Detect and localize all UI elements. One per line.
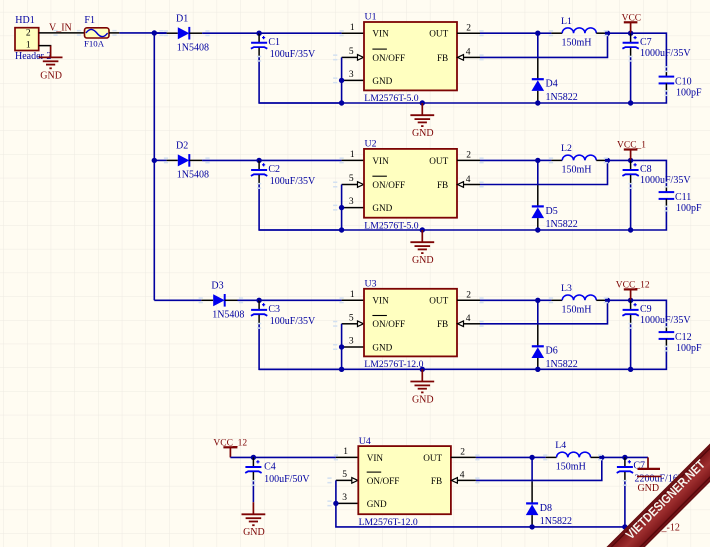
pin 2 OUT of U3 [457,291,480,301]
wire output to C10 [631,33,667,70]
svg-text:4: 4 [466,314,471,324]
svg-text:3: 3 [349,337,354,347]
wire bus to D2 [154,159,166,161]
wire OUT to switch node [480,299,538,301]
svg-text:VCC_12: VCC_12 [616,280,650,290]
svg-text:GND: GND [637,483,659,494]
node output VCC_1 [628,158,633,163]
power port VCC_12 feed [213,438,247,457]
svg-text:HD1: HD1 [15,15,34,26]
ground GND on rail [410,369,434,405]
wire FB node to VCC node [608,159,631,161]
svg-text:C3: C3 [268,304,280,315]
node C1 top [256,31,261,36]
svg-text:C11: C11 [675,192,691,203]
capacitor C1 100uF/35V [251,33,316,60]
svg-text:FB: FB [437,180,448,190]
wire C2 down to ground rail [259,184,342,230]
wire C2 to pin 1 [259,159,342,161]
svg-text:5: 5 [349,313,354,323]
fuse F1 F10A [84,15,119,48]
wire C3 down to ground rail [259,324,342,369]
wire input bus vertical [153,33,155,300]
node rail at catch diode [535,100,540,105]
node C8 bottom [628,227,633,232]
svg-text:D2: D2 [176,141,188,152]
svg-text:OUT: OUT [429,296,448,306]
svg-text:C1: C1 [268,37,280,48]
svg-text:GND: GND [367,499,387,509]
svg-text:D4: D4 [546,79,558,90]
svg-text:VCC_1: VCC_1 [617,141,646,151]
pin 5 ON/OFF of U2 [342,174,364,187]
wire C10 down to rail corner [631,92,667,103]
ground GND on rail [410,230,434,266]
svg-text:1N5822: 1N5822 [546,92,578,103]
wire C7 down to rail [630,57,632,103]
diode D1 1N5408 [167,14,209,54]
svg-text:ON/OFF: ON/OFF [372,180,405,190]
svg-text:5: 5 [342,470,347,480]
pin 3 GND of U3 [342,337,364,347]
svg-text:C2: C2 [268,164,280,175]
node switch node [535,298,540,303]
svg-text:OUT: OUT [429,29,448,39]
wire VCC_12 to C4 and VIN [230,456,336,458]
wire C11 down to rail corner [631,207,667,230]
svg-text:L2: L2 [561,143,572,154]
diode D4 1N5822 catch [532,33,578,103]
watermark ribbon VIETDESIGNER.NET [577,414,710,547]
inductor L4 150mH [532,440,602,473]
capacitor C3 100uF/35V [251,300,316,327]
pin 1 VIN of U1 [342,23,364,33]
svg-text:VIN: VIN [372,156,389,166]
op-amp U4 regulator LM2576T-12.0 [358,436,451,528]
wire ground rail row4 [532,526,664,528]
svg-text:4: 4 [460,471,465,481]
wire D1 to C1 [202,32,259,34]
capacitor C2 100uF/35V [251,160,316,187]
wire ON/OFF down to rail row4 [336,480,532,527]
wire C1 to pin 1 [259,32,342,34]
svg-text:5: 5 [349,47,354,57]
connector HD1 Header 2 [15,15,51,62]
svg-text:2: 2 [466,24,471,34]
wire OUT to switch node [480,159,538,161]
wire FB feedback loop row4 [476,457,602,480]
svg-text:150mH: 150mH [562,165,592,176]
wire FB node to VCC node [608,32,631,34]
node pin3 junction [339,344,344,349]
op-amp U1 regulator U1 LM2576T-5.0 [364,12,457,105]
net label V_IN [49,22,72,33]
wire output to C12 [631,300,667,326]
node rail left junction [339,367,344,372]
pin 4 FB of U2 [458,175,481,188]
svg-text:2: 2 [460,448,465,458]
node rail at ground symbol [420,100,425,105]
node output VCC [628,31,633,36]
node switch node row4 [529,455,534,460]
svg-text:3: 3 [342,493,347,503]
diode D5 1N5822 catch [532,160,578,230]
pin 2 OUT of U2 [457,151,480,161]
node C7 bottom [628,100,633,105]
svg-text:VCC: VCC [622,13,642,23]
diode D2 1N5408 [167,141,209,181]
svg-text:L3: L3 [561,283,572,294]
diode D8 1N5822 catch [526,457,572,527]
svg-text:GND: GND [372,342,392,352]
svg-text:1N5822: 1N5822 [540,516,572,527]
wire ground rail [259,102,630,104]
pin 5 ON/OFF of U3 [342,313,364,326]
node rail left junction [339,100,344,105]
pin 3 GND of U1 [342,70,364,80]
svg-text:GND: GND [40,70,62,81]
pin 1 VIN of U3 [342,290,364,300]
svg-text:FB: FB [437,53,448,63]
pin 1 wire of HD1 [39,45,51,48]
svg-text:ON/OFF: ON/OFF [372,53,405,63]
pin 1 VIN of U4 [336,447,358,457]
pin 5 ON/OFF of U4 [336,470,358,483]
pin 4 FB of U4 [451,471,476,484]
svg-text:4: 4 [466,175,471,185]
capacitor C12 100pF [659,326,702,354]
svg-text:150mH: 150mH [562,37,592,48]
capacitor C7 1000uF/35V [622,33,691,59]
svg-text:ON/OFF: ON/OFF [367,476,400,486]
wire FB node to VCC node [608,299,631,301]
svg-text:3: 3 [349,70,354,80]
svg-text:3: 3 [349,197,354,207]
wire bus to D1 [154,32,166,34]
op-amp U3 regulator U3 LM2576T-12.0 [364,279,457,371]
wire C3 to pin 1 [259,299,342,301]
svg-text:2: 2 [466,151,471,161]
wire C1 down to ground rail [259,57,342,103]
wire ground rail [259,229,630,231]
svg-text:C7: C7 [640,37,652,48]
wire OUT to switch node [480,32,538,34]
net label VCC_-12 [641,522,680,533]
svg-text:1: 1 [26,40,31,50]
svg-text:D3: D3 [211,281,223,292]
svg-text:1N5408: 1N5408 [177,170,209,181]
wire FB feedback loop [480,160,608,184]
capacitor C10 100pF [659,71,702,99]
svg-text:GND: GND [412,394,434,405]
capacitor C4 100uF/50V [245,457,310,485]
svg-text:2: 2 [466,291,471,301]
svg-text:100pF: 100pF [676,203,702,214]
wire D3 to C3 [238,299,260,301]
svg-text:1N5822: 1N5822 [546,219,578,230]
svg-text:1: 1 [343,447,348,457]
node input bus row1 [152,30,157,35]
node rail at catch diode [535,367,540,372]
svg-text:GND: GND [412,128,434,139]
node FB junction [605,158,610,163]
wire C9 down to rail [630,324,632,369]
svg-text:4: 4 [466,48,471,58]
pin 2 OUT of U4 [451,448,476,458]
svg-text:100pF: 100pF [676,88,702,99]
pin hotspot marks [53,30,668,507]
svg-text:F10A: F10A [84,38,105,48]
wire ON/OFF to GND to rail [341,57,343,103]
svg-text:VIN: VIN [372,29,389,39]
svg-text:OUT: OUT [423,453,442,463]
svg-text:GND: GND [412,255,434,266]
wire C12 down to rail corner [631,347,667,369]
svg-text:150mH: 150mH [556,462,586,473]
inductor L3 150mH [538,283,608,316]
svg-text:ON/OFF: ON/OFF [372,319,405,329]
svg-text:C8: C8 [640,164,652,175]
svg-text:100uF/50V: 100uF/50V [264,474,310,485]
node C2 top [256,158,261,163]
svg-text:1: 1 [350,290,355,300]
pin 4 FB of U3 [458,314,481,327]
node switch node [535,158,540,163]
svg-text:U1: U1 [365,12,377,23]
wire ON/OFF to GND to rail [341,185,343,231]
inductor L2 150mH [538,143,608,176]
svg-text:U2: U2 [365,139,377,150]
svg-text:C9: C9 [640,304,652,315]
svg-text:100uF/35V: 100uF/35V [270,176,316,187]
svg-text:VIN: VIN [367,453,384,463]
pin 5 ON/OFF of U1 [342,47,364,60]
svg-text:5: 5 [349,174,354,184]
svg-text:FB: FB [431,476,442,486]
node switch node [535,31,540,36]
capacitor C11 100pF [659,186,702,214]
node rail left junction [339,227,344,232]
diode D3 1N5408 [201,281,244,321]
power port VCC [622,13,642,33]
svg-text:FB: FB [437,319,448,329]
inductor L1 150mH [538,16,608,49]
node pin3 junction row4 [333,501,338,506]
node C9 bottom [628,367,633,372]
wire C4 to ground [252,481,254,502]
svg-text:U3: U3 [365,279,377,290]
node rail at D8 [529,524,534,529]
capacitor C8 1000uF/35V [622,160,691,186]
svg-text:D6: D6 [546,346,558,357]
node FB junction row4 [599,455,604,460]
pin 4 FB of U1 [458,48,481,61]
svg-text:1N5408: 1N5408 [177,42,209,53]
pin 3 GND of U4 [336,493,358,503]
node C7 bottom rail [622,524,627,529]
wire ground rail [259,368,630,370]
node rail at ground symbol [420,227,425,232]
op-amp U2 regulator U2 LM2576T-5.0 [364,139,457,232]
node bus row2 [152,158,157,163]
node output VCC_12 [628,298,633,303]
wire FB feedback loop [480,33,608,57]
svg-text:LM2576T-12.0: LM2576T-12.0 [359,517,418,528]
wire output to C11 [631,160,667,186]
capacitor C9 1000uF/35V [622,300,691,326]
svg-text:F1: F1 [84,15,95,26]
wire fuse to input bus [119,32,166,34]
wire D2 to C2 [202,159,259,161]
svg-text:OUT: OUT [429,156,448,166]
svg-text:1N5822: 1N5822 [546,359,578,370]
svg-text:D1: D1 [176,14,188,25]
pin 2 wire of HD1 [39,32,85,34]
node C4 top [251,455,256,460]
node C7 output top [622,455,627,460]
node rail at catch diode [535,227,540,232]
pin 1 VIN of U2 [342,150,364,160]
svg-text:150mH: 150mH [562,305,592,316]
svg-text:100pF: 100pF [676,343,702,354]
ground GND under C4 [242,502,266,538]
wire FB node to output cap [602,456,648,458]
svg-text:1N5408: 1N5408 [212,310,244,321]
wire C7 down to rail row4 [624,481,626,527]
node pin3 junction [339,205,344,210]
wire input bus corner to D3 [154,299,201,301]
svg-text:V_IN: V_IN [49,22,72,33]
pin 2 OUT of U1 [457,24,480,34]
svg-text:C10: C10 [675,77,692,88]
wire ON/OFF to GND to rail [341,324,343,370]
svg-text:C12: C12 [675,332,692,343]
svg-text:100uF/35V: 100uF/35V [270,316,316,327]
ground GND bar at output [637,457,662,494]
diode D6 1N5822 catch [532,300,578,370]
svg-text:L4: L4 [555,440,566,451]
ground GND under HD1 [39,46,63,82]
svg-text:100uF/35V: 100uF/35V [270,49,316,60]
power port VCC_1 [617,141,646,161]
svg-text:GND: GND [372,203,392,213]
node pin3 junction [339,78,344,83]
capacitor C7 2200uF/16V output [617,457,686,484]
svg-text:2: 2 [26,29,31,39]
svg-text:GND: GND [243,527,265,538]
node FB junction [605,298,610,303]
svg-text:L1: L1 [561,16,572,27]
node FB junction [605,31,610,36]
wire C8 down to rail [630,184,632,230]
svg-text:1: 1 [350,150,355,160]
svg-text:U4: U4 [359,436,371,447]
node C3 top [256,298,261,303]
svg-text:GND: GND [372,76,392,86]
svg-text:1: 1 [350,23,355,33]
wire FB feedback loop [480,300,608,324]
pin 3 GND of U2 [342,197,364,207]
svg-text:D8: D8 [540,503,552,514]
svg-text:C4: C4 [264,461,276,472]
ground GND on rail [410,103,434,139]
svg-text:VIN: VIN [372,296,389,306]
node rail at ground symbol [420,367,425,372]
wire OUT to switch node row4 [476,456,532,458]
power port VCC_12 [616,280,650,300]
svg-text:D5: D5 [546,206,558,217]
